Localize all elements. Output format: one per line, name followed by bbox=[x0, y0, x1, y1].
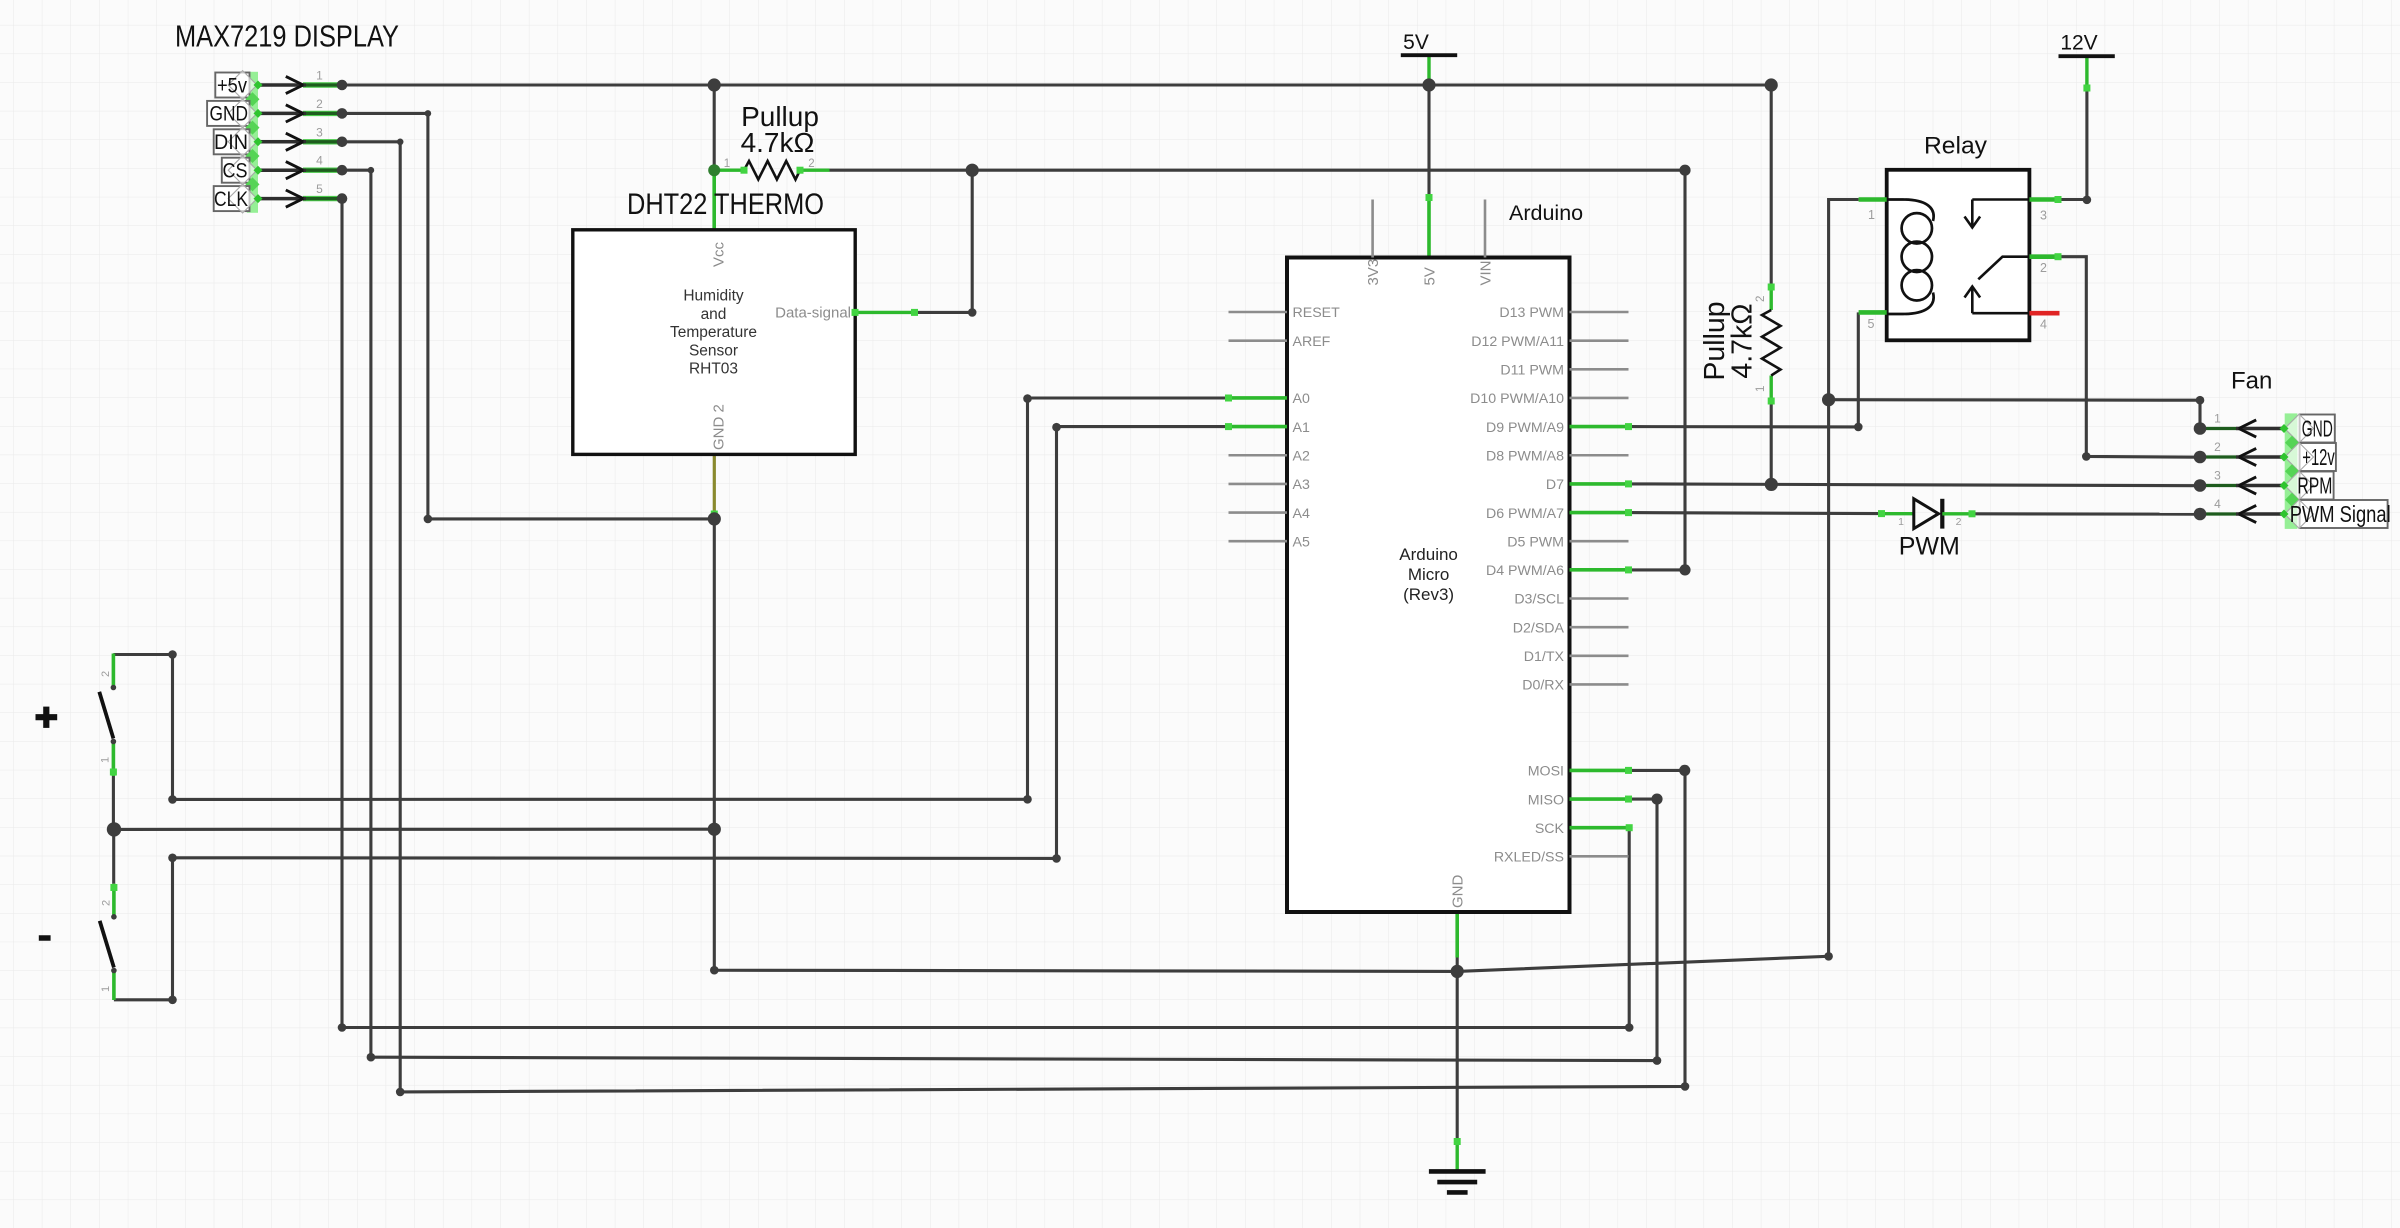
svg-text:1: 1 bbox=[2214, 412, 2221, 426]
svg-text:AREF: AREF bbox=[1293, 334, 1331, 350]
svg-text:Data-signal: Data-signal bbox=[775, 305, 851, 322]
svg-text:D3/SCL: D3/SCL bbox=[1514, 592, 1564, 608]
svg-text:4.7kΩ: 4.7kΩ bbox=[1727, 303, 1759, 378]
svg-text:MAX7219 DISPLAY: MAX7219 DISPLAY bbox=[175, 19, 399, 54]
svg-text:2: 2 bbox=[1956, 516, 1962, 528]
svg-text:5V: 5V bbox=[1403, 31, 1429, 54]
svg-text:1: 1 bbox=[724, 158, 730, 170]
svg-text:Vcc: Vcc bbox=[711, 241, 728, 267]
svg-text:2: 2 bbox=[2214, 440, 2221, 454]
svg-text:RXLED/SS: RXLED/SS bbox=[1494, 850, 1564, 866]
svg-text:Sensor: Sensor bbox=[689, 342, 738, 359]
svg-text:Arduino: Arduino bbox=[1399, 545, 1458, 564]
svg-text:1: 1 bbox=[100, 986, 112, 992]
svg-text:3V3: 3V3 bbox=[1365, 259, 1382, 286]
svg-text:1: 1 bbox=[1898, 516, 1904, 528]
svg-text:A1: A1 bbox=[1293, 420, 1310, 436]
svg-text:5: 5 bbox=[316, 182, 323, 196]
svg-text:D8 PWM/A8: D8 PWM/A8 bbox=[1486, 448, 1564, 464]
svg-text:D13 PWM: D13 PWM bbox=[1499, 305, 1564, 321]
svg-text:Arduino: Arduino bbox=[1509, 201, 1583, 225]
svg-text:A4: A4 bbox=[1293, 506, 1310, 522]
svg-text:A0: A0 bbox=[1293, 391, 1310, 407]
svg-text:2: 2 bbox=[101, 900, 113, 906]
svg-text:D10 PWM/A10: D10 PWM/A10 bbox=[1470, 391, 1564, 407]
svg-text:Relay: Relay bbox=[1924, 133, 1988, 160]
svg-text:D2/SDA: D2/SDA bbox=[1513, 620, 1565, 636]
svg-text:1: 1 bbox=[1868, 208, 1875, 222]
svg-text:3: 3 bbox=[2040, 209, 2047, 223]
svg-text:A3: A3 bbox=[1293, 477, 1310, 493]
svg-text:and: and bbox=[701, 306, 727, 323]
svg-text:+12v: +12v bbox=[2302, 444, 2335, 470]
svg-text:CS: CS bbox=[223, 160, 248, 183]
svg-text:D1/TX: D1/TX bbox=[1524, 649, 1565, 665]
svg-text:A2: A2 bbox=[1293, 448, 1310, 464]
svg-text:D6 PWM/A7: D6 PWM/A7 bbox=[1486, 506, 1564, 522]
svg-text:D9 PWM/A9: D9 PWM/A9 bbox=[1486, 420, 1564, 436]
svg-text:+5v: +5v bbox=[217, 74, 247, 97]
svg-text:12V: 12V bbox=[2060, 32, 2097, 55]
svg-text:D4 PWM/A6: D4 PWM/A6 bbox=[1486, 563, 1564, 579]
svg-text:SCK: SCK bbox=[1535, 821, 1565, 837]
svg-text:1: 1 bbox=[100, 757, 112, 763]
svg-text:PWM Signal: PWM Signal bbox=[2290, 501, 2391, 527]
svg-text:Micro: Micro bbox=[1408, 565, 1450, 584]
svg-text:2: 2 bbox=[1755, 296, 1767, 302]
svg-text:D12 PWM/A11: D12 PWM/A11 bbox=[1471, 334, 1564, 350]
svg-text:2: 2 bbox=[2040, 261, 2047, 275]
svg-text:1: 1 bbox=[1755, 386, 1767, 392]
svg-text:A5: A5 bbox=[1293, 534, 1310, 550]
svg-text:GND: GND bbox=[1450, 875, 1467, 909]
svg-text:2: 2 bbox=[100, 671, 112, 677]
svg-text:4: 4 bbox=[2214, 497, 2221, 511]
svg-text:3: 3 bbox=[2214, 469, 2221, 483]
svg-text:VIN: VIN bbox=[1477, 260, 1494, 285]
svg-text:MISO: MISO bbox=[1528, 792, 1564, 808]
svg-text:D7: D7 bbox=[1546, 477, 1564, 493]
svg-text:(Rev3): (Rev3) bbox=[1403, 585, 1454, 604]
svg-text:4: 4 bbox=[2040, 318, 2047, 332]
svg-text:RPM: RPM bbox=[2297, 472, 2332, 498]
svg-text:GND: GND bbox=[2302, 415, 2333, 441]
svg-text:2: 2 bbox=[808, 158, 814, 170]
svg-text:3: 3 bbox=[316, 125, 323, 139]
svg-text:D5 PWM: D5 PWM bbox=[1507, 534, 1564, 550]
svg-text:DHT22 THERMO: DHT22 THERMO bbox=[627, 188, 824, 221]
svg-text:RESET: RESET bbox=[1293, 305, 1341, 321]
svg-text:DIN: DIN bbox=[214, 131, 248, 154]
svg-text:GND 2: GND 2 bbox=[711, 404, 728, 450]
svg-text:RHT03: RHT03 bbox=[689, 361, 738, 378]
svg-text:5V: 5V bbox=[1422, 267, 1439, 285]
svg-text:Temperature: Temperature bbox=[670, 324, 757, 341]
svg-text:1: 1 bbox=[316, 69, 323, 83]
svg-text:CLK: CLK bbox=[214, 188, 248, 211]
svg-text:D0/RX: D0/RX bbox=[1522, 678, 1564, 694]
svg-text:Fan: Fan bbox=[2231, 368, 2272, 395]
svg-text:PWM: PWM bbox=[1899, 533, 1960, 561]
svg-text:Humidity: Humidity bbox=[683, 288, 744, 305]
svg-text:MOSI: MOSI bbox=[1528, 764, 1564, 780]
svg-text:4.7kΩ: 4.7kΩ bbox=[741, 127, 815, 158]
svg-text:5: 5 bbox=[1868, 317, 1875, 331]
svg-text:GND: GND bbox=[210, 103, 249, 126]
svg-text:2: 2 bbox=[316, 97, 323, 111]
svg-text:4: 4 bbox=[316, 154, 323, 168]
svg-text:D11 PWM: D11 PWM bbox=[1500, 363, 1564, 379]
